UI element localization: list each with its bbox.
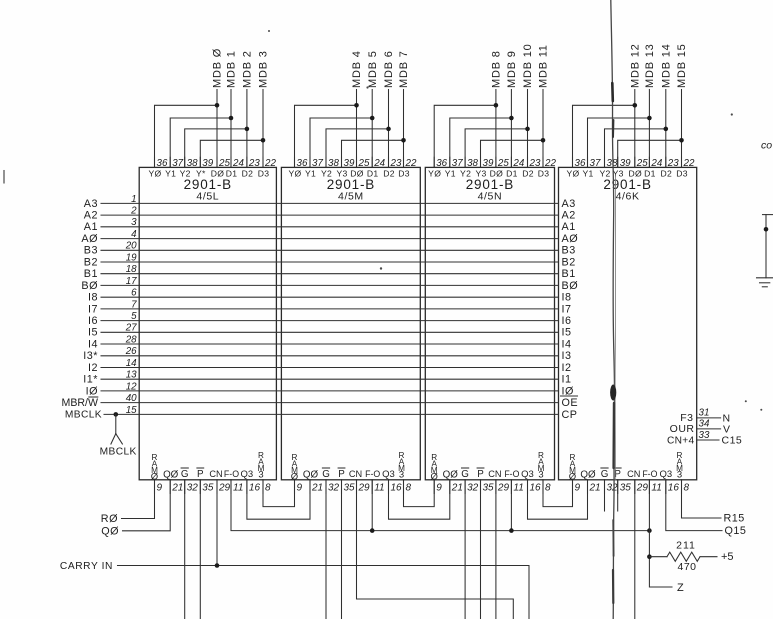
svg-text:I8: I8 bbox=[88, 292, 98, 304]
svg-text:IØ: IØ bbox=[86, 385, 98, 397]
svg-text:CN: CN bbox=[209, 469, 222, 479]
svg-text:21: 21 bbox=[171, 483, 183, 494]
wire Y1 pin to MDB13 elbow bbox=[588, 118, 650, 167]
svg-text:Y3: Y3 bbox=[336, 168, 347, 178]
svg-text:F-O: F-O bbox=[224, 469, 239, 479]
svg-text:Y3: Y3 bbox=[475, 168, 486, 178]
wire MDB7 vertical to D3 pin bbox=[403, 90, 405, 168]
svg-text:MDB 9: MDB 9 bbox=[506, 50, 518, 88]
svg-text:MBR/W: MBR/W bbox=[62, 397, 98, 409]
wire Y1 pin to MDB5 elbow bbox=[310, 118, 372, 167]
wire Y0 pin to MDB12 elbow bbox=[573, 105, 635, 167]
wire MDB12 vertical to D0 pin bbox=[634, 90, 636, 168]
IC U4 left pin label B2 bbox=[562, 256, 576, 268]
wire net AØ bus row bbox=[101, 238, 559, 240]
svg-text:21: 21 bbox=[589, 483, 601, 494]
IC U4 left pin label I8 bbox=[562, 292, 572, 304]
IC U4 left pin label B1 bbox=[562, 268, 576, 280]
svg-text:MBCLK: MBCLK bbox=[100, 447, 137, 458]
junction Y3/MDB11 bbox=[541, 138, 546, 143]
node B2 label bbox=[84, 256, 98, 268]
IC U4 left pin label CP bbox=[562, 409, 578, 421]
svg-text:3: 3 bbox=[399, 470, 404, 481]
IC U4 pin 31 F3 to node N bbox=[680, 407, 730, 424]
svg-text:B2: B2 bbox=[84, 256, 98, 268]
IC U4 left pin label AØ bbox=[562, 233, 579, 245]
svg-text:Y3: Y3 bbox=[613, 168, 624, 178]
svg-text:Y1: Y1 bbox=[582, 168, 593, 178]
net MBR/W pin number 40 bbox=[126, 393, 137, 404]
resistor reference 211 bbox=[676, 540, 696, 552]
wire Y2 pin to MDB10 elbow bbox=[465, 129, 527, 168]
svg-text:F-O: F-O bbox=[642, 469, 657, 479]
junction Y3/MDB7 bbox=[401, 138, 406, 143]
svg-text:I8: I8 bbox=[562, 292, 572, 304]
scan specks (decorative) bbox=[268, 30, 762, 411]
node MDB7 label bbox=[398, 50, 410, 88]
svg-text:38: 38 bbox=[187, 158, 198, 169]
svg-text:38: 38 bbox=[467, 158, 478, 169]
svg-text:MDB 14: MDB 14 bbox=[660, 43, 672, 88]
resistor 211 470 ohm pull-up bbox=[649, 552, 717, 561]
IC U4 left pin label I2 bbox=[562, 362, 572, 374]
wire Q3 to Q0 link bbox=[528, 480, 588, 519]
svg-text:CP: CP bbox=[562, 409, 578, 421]
svg-text:A1: A1 bbox=[84, 221, 98, 233]
svg-text:24: 24 bbox=[373, 158, 385, 169]
IC U4 left pin label A3 bbox=[562, 198, 576, 210]
wire Y3 pin to MDB3 elbow bbox=[200, 140, 263, 167]
svg-text:CN: CN bbox=[627, 469, 640, 479]
wire net I8 bus row bbox=[101, 296, 559, 298]
wire Y3 pin to MDB15 elbow bbox=[618, 140, 682, 167]
junction pull-up node bbox=[647, 554, 652, 559]
wire MDB0 vertical to D0 pin bbox=[216, 90, 218, 168]
net B2 pin number 19 bbox=[126, 252, 137, 263]
net I1* pin number 13 bbox=[126, 370, 137, 381]
junction Z at U2 F=0 bbox=[370, 528, 375, 533]
node BØ label bbox=[81, 280, 98, 292]
svg-text:32: 32 bbox=[328, 483, 340, 494]
wire U4 RAM3 pin 8 to node R15 bbox=[682, 480, 722, 518]
svg-text:Y2: Y2 bbox=[599, 168, 610, 178]
junction Y0/MDB12 bbox=[633, 103, 638, 108]
junction Y2/MDB6 bbox=[386, 127, 391, 132]
svg-text:25: 25 bbox=[358, 158, 370, 169]
svg-text:39: 39 bbox=[483, 158, 494, 169]
svg-text:29: 29 bbox=[636, 483, 649, 494]
svg-text:32: 32 bbox=[607, 483, 619, 494]
svg-text:D3: D3 bbox=[398, 168, 410, 178]
svg-text:MDB 10: MDB 10 bbox=[522, 43, 534, 88]
svg-text:CN: CN bbox=[349, 469, 362, 479]
node Q15 label bbox=[725, 525, 747, 537]
svg-text:29: 29 bbox=[358, 483, 371, 494]
svg-text:co: co bbox=[761, 140, 772, 152]
svg-text:36: 36 bbox=[297, 158, 308, 169]
svg-text:23: 23 bbox=[529, 158, 541, 169]
svg-text:21: 21 bbox=[311, 483, 323, 494]
svg-text:29: 29 bbox=[218, 483, 231, 494]
node I6 label bbox=[88, 315, 98, 327]
wire RAM3 to RAM0 link bbox=[263, 480, 295, 507]
node MDB12 label bbox=[629, 43, 641, 88]
IC U4 left pin label I3 bbox=[562, 350, 572, 362]
svg-text:Y2: Y2 bbox=[460, 168, 471, 178]
svg-text:37: 37 bbox=[312, 158, 323, 169]
node MDB10 label bbox=[522, 43, 534, 88]
wire MDB11 vertical to D3 pin bbox=[542, 90, 544, 168]
svg-text:I6: I6 bbox=[88, 315, 98, 327]
wire net A3 bus row bbox=[101, 202, 559, 204]
svg-text:DØ: DØ bbox=[211, 168, 225, 178]
wire net CARRY IN bbox=[118, 566, 530, 619]
svg-text:G: G bbox=[601, 469, 609, 480]
svg-text:Y2: Y2 bbox=[180, 168, 191, 178]
svg-text:D2: D2 bbox=[522, 168, 534, 178]
svg-text:D3: D3 bbox=[538, 168, 550, 178]
node MDB15 label bbox=[676, 43, 688, 88]
IC U2 2901-B 4/5M body bbox=[281, 167, 420, 479]
svg-text:I7: I7 bbox=[88, 303, 98, 315]
node MDB6 label bbox=[383, 50, 395, 88]
wire Y2 pin to MDB2 elbow bbox=[185, 129, 247, 168]
IC U4 2901-B 4/6K body bbox=[559, 167, 697, 479]
wire off-page stub top right bbox=[763, 215, 773, 278]
svg-text:I3: I3 bbox=[562, 350, 572, 362]
wire net MBR/W bus row bbox=[101, 402, 559, 404]
wire RAM3 to RAM0 link bbox=[543, 480, 573, 507]
svg-text:P: P bbox=[477, 469, 484, 480]
node CARRY IN label bbox=[60, 561, 113, 572]
node A3 label bbox=[84, 198, 98, 210]
svg-text:BØ: BØ bbox=[562, 280, 579, 292]
junction Y1/MDB13 bbox=[647, 116, 652, 121]
net BØ pin number 17 bbox=[126, 276, 137, 287]
node MDB13 label bbox=[644, 43, 656, 88]
svg-text:MDB 2: MDB 2 bbox=[242, 50, 254, 88]
IC U2 part label 2901-B bbox=[327, 177, 375, 203]
svg-text:I6: I6 bbox=[562, 315, 572, 327]
svg-text:16: 16 bbox=[391, 483, 403, 494]
wire Q3 to Q0 link bbox=[389, 480, 450, 519]
junction Z at U4 F=0 bbox=[647, 528, 652, 533]
junction Y0/MDB0 bbox=[215, 103, 220, 108]
node MDB11 label bbox=[538, 44, 550, 88]
svg-text:CN+4: CN+4 bbox=[667, 435, 695, 446]
svg-text:36: 36 bbox=[436, 158, 447, 169]
svg-text:V: V bbox=[723, 423, 730, 435]
svg-text:I4: I4 bbox=[88, 338, 98, 350]
wire net B3 bus row bbox=[101, 249, 559, 251]
clock source symbol MBCLK bbox=[111, 414, 123, 444]
svg-text:Y1: Y1 bbox=[165, 168, 176, 178]
IC U4 left pin label B3 bbox=[562, 245, 576, 257]
net I4 pin number 28 bbox=[125, 334, 137, 345]
svg-text:38: 38 bbox=[607, 158, 618, 169]
wire MDB10 vertical to D2 pin bbox=[527, 90, 529, 168]
svg-text:MDB 13: MDB 13 bbox=[644, 43, 656, 88]
wire Y1 pin to MDB9 elbow bbox=[450, 118, 512, 167]
svg-text:37: 37 bbox=[590, 158, 601, 169]
svg-text:YØ: YØ bbox=[148, 168, 161, 178]
wire Y0 pin to MDB0 elbow bbox=[155, 105, 218, 167]
wire MDB8 vertical to D0 pin bbox=[495, 90, 497, 168]
svg-text:MDB 12: MDB 12 bbox=[629, 43, 641, 88]
power +5 label bbox=[721, 551, 734, 563]
node MBR/W label bbox=[62, 397, 98, 409]
wire Y0 pin to MDB8 elbow bbox=[434, 105, 496, 167]
node Z label bbox=[677, 582, 684, 594]
svg-text:Q3: Q3 bbox=[241, 469, 254, 480]
svg-text:9: 9 bbox=[436, 483, 442, 494]
node R0 label and wire to U1 RAM0 pin 9 bbox=[101, 480, 155, 525]
svg-text:32: 32 bbox=[467, 483, 479, 494]
IC U3 bottom pin names RAM0 Q0 G P CN F-0 Q3 RAM3 bbox=[431, 451, 545, 482]
svg-text:24: 24 bbox=[650, 158, 662, 169]
svg-text:38: 38 bbox=[328, 158, 339, 169]
node R15 label bbox=[724, 513, 745, 525]
wire net B2 bus row bbox=[101, 261, 559, 263]
wire Y3 pin to MDB11 elbow bbox=[481, 140, 544, 167]
svg-text:MBCLK: MBCLK bbox=[65, 410, 102, 421]
svg-text:22: 22 bbox=[683, 158, 695, 169]
svg-text:A3: A3 bbox=[84, 198, 98, 210]
svg-text:CARRY IN: CARRY IN bbox=[60, 561, 113, 572]
svg-text:A2: A2 bbox=[84, 210, 98, 222]
svg-text:QØ: QØ bbox=[163, 469, 179, 480]
IC U4 top pin ticks and pin numbers 36 37 38 39 25 24 23 22 bbox=[573, 157, 695, 169]
IC U4 left pin label I5 bbox=[562, 327, 572, 339]
svg-text:16: 16 bbox=[249, 483, 261, 494]
net A3 pin number 1 bbox=[131, 194, 136, 205]
IC U4 left pin label I4 bbox=[562, 338, 572, 350]
node MDB14 label bbox=[660, 43, 672, 88]
svg-text:11: 11 bbox=[374, 483, 384, 494]
node A1 label bbox=[84, 221, 98, 233]
svg-text:9: 9 bbox=[575, 483, 581, 494]
scan fold crease (decorative) bbox=[610, 0, 616, 619]
svg-text:B1: B1 bbox=[84, 268, 98, 280]
svg-text:33: 33 bbox=[699, 430, 710, 441]
svg-text:D2: D2 bbox=[242, 168, 254, 178]
IC U3 bottom pin ticks and pin numbers 9 21 32 35 29 11 16 8 bbox=[434, 480, 551, 494]
svg-text:B3: B3 bbox=[84, 245, 98, 257]
IC U3 top pin ticks and pin numbers 36 37 38 39 25 24 23 22 bbox=[434, 157, 556, 169]
svg-text:D2: D2 bbox=[661, 168, 673, 178]
IC U4 left pin label IØ bbox=[562, 385, 574, 397]
wire RAM3 to RAM0 link bbox=[404, 480, 435, 507]
IC U4 left pin label BØ bbox=[562, 280, 579, 292]
IC U4 left pin label I6 bbox=[562, 315, 572, 327]
node MDB4 label bbox=[351, 50, 363, 88]
svg-text:OUR: OUR bbox=[670, 423, 695, 435]
svg-text:16: 16 bbox=[668, 483, 680, 494]
node MBCLK symbol label bbox=[100, 447, 137, 458]
svg-text:Q3: Q3 bbox=[659, 469, 672, 480]
svg-text:MDB 11: MDB 11 bbox=[538, 44, 550, 88]
svg-text:Q15: Q15 bbox=[725, 525, 747, 537]
node I2 label bbox=[88, 362, 98, 374]
svg-text:R15: R15 bbox=[724, 513, 745, 525]
wire U4 Q3 pin 16 to node Q15 bbox=[666, 480, 722, 531]
wire U2 CN pin 29 routed off-page bbox=[357, 480, 514, 619]
node MDB9 label bbox=[506, 50, 518, 88]
wire U1 G pin 32 off-page bbox=[184, 480, 186, 619]
svg-text:MDB 4: MDB 4 bbox=[351, 50, 363, 88]
svg-text:CN: CN bbox=[488, 469, 501, 479]
junction Y2/MDB2 bbox=[245, 127, 250, 132]
IC U3 top pin names Y0-Y3 D0-D3 bbox=[428, 168, 549, 178]
svg-text:I5: I5 bbox=[88, 327, 98, 339]
svg-text:22: 22 bbox=[264, 158, 276, 169]
svg-text:D2: D2 bbox=[383, 168, 395, 178]
wire MDB6 vertical to D2 pin bbox=[388, 90, 390, 168]
IC U2 top pin ticks and pin numbers 36 37 38 39 25 24 23 22 bbox=[295, 157, 417, 169]
svg-text:4/5M: 4/5M bbox=[338, 191, 364, 203]
svg-text:F-O: F-O bbox=[365, 469, 380, 479]
wire net I7 bus row bbox=[101, 308, 559, 310]
node MDB0 label bbox=[212, 48, 224, 88]
svg-text:YØ: YØ bbox=[428, 168, 441, 178]
svg-text:I5: I5 bbox=[562, 327, 572, 339]
IC U4 bottom pin names RAM0 Q0 G P CN F-0 Q3 RAM3 bbox=[569, 451, 683, 482]
wire MDB4 vertical to D0 pin bbox=[356, 90, 358, 168]
svg-text:8: 8 bbox=[265, 483, 271, 494]
svg-text:11: 11 bbox=[513, 483, 523, 494]
svg-text:B3: B3 bbox=[562, 245, 576, 257]
wire net I6 bus row bbox=[101, 320, 559, 322]
IC U4 top pin names Y0-Y3 D0-D3 bbox=[566, 168, 687, 178]
svg-text:35: 35 bbox=[483, 483, 495, 494]
svg-text:G: G bbox=[461, 469, 469, 480]
node Q0 label and wire to U1 Q0 pin 21 bbox=[101, 480, 170, 538]
svg-text:11: 11 bbox=[651, 483, 661, 494]
svg-text:8: 8 bbox=[545, 483, 551, 494]
node I8 label bbox=[88, 292, 98, 304]
svg-text:22: 22 bbox=[544, 158, 556, 169]
wire MDB14 vertical to D2 pin bbox=[665, 90, 667, 168]
wire net I4 bus row bbox=[101, 343, 559, 345]
svg-text:3: 3 bbox=[258, 470, 263, 481]
wire U3 P pin 35 off-page bbox=[480, 480, 482, 619]
svg-text:35: 35 bbox=[620, 483, 632, 494]
wire U2 P pin 35 off-page bbox=[341, 480, 343, 619]
net A1 pin number 3 bbox=[131, 217, 137, 228]
net I7 pin number 7 bbox=[131, 299, 137, 310]
svg-text:3: 3 bbox=[677, 470, 682, 481]
svg-text:470: 470 bbox=[677, 561, 696, 573]
svg-text:9: 9 bbox=[157, 483, 163, 494]
svg-text:DØ: DØ bbox=[350, 168, 364, 178]
node MDB2 label bbox=[242, 50, 254, 88]
svg-text:BØ: BØ bbox=[81, 280, 98, 292]
svg-text:4/6K: 4/6K bbox=[616, 191, 640, 203]
wire MDB15 vertical to D3 pin bbox=[681, 90, 683, 168]
svg-text:Y1: Y1 bbox=[305, 168, 316, 178]
node MDB5 label bbox=[367, 50, 379, 88]
svg-text:4/5L: 4/5L bbox=[196, 191, 219, 203]
IC U1 2901-B 4/5L body bbox=[139, 167, 276, 479]
svg-text:34: 34 bbox=[699, 419, 710, 430]
wire U3 CN pin 29 off-page bbox=[495, 480, 497, 619]
svg-text:G: G bbox=[322, 469, 330, 480]
svg-text:29: 29 bbox=[497, 483, 510, 494]
svg-text:C15: C15 bbox=[722, 435, 743, 447]
junction Y3/MDB15 bbox=[679, 138, 684, 143]
wire U1 P pin 35 off-page bbox=[199, 480, 201, 619]
svg-text:Y*: Y* bbox=[196, 168, 206, 178]
resistor value 470 bbox=[677, 561, 696, 573]
net IØ pin number 12 bbox=[126, 381, 137, 392]
svg-text:QØ: QØ bbox=[443, 469, 459, 480]
wire net I3* bus row bbox=[101, 355, 559, 357]
svg-text:24: 24 bbox=[232, 158, 244, 169]
junction MBCLK tap bbox=[114, 412, 119, 417]
svg-text:A1: A1 bbox=[562, 221, 576, 233]
net I8 pin number 6 bbox=[131, 288, 137, 299]
node AØ label bbox=[81, 233, 98, 245]
svg-text:25: 25 bbox=[636, 158, 648, 169]
svg-text:23: 23 bbox=[667, 158, 679, 169]
svg-text:B1: B1 bbox=[562, 268, 576, 280]
wire U3 G pin 32 off-page bbox=[464, 480, 466, 619]
svg-text:MDB 1: MDB 1 bbox=[226, 50, 238, 88]
svg-text:F-O: F-O bbox=[504, 469, 519, 479]
node I4 label bbox=[88, 338, 98, 350]
IC U4 pin 34 OVR to node V bbox=[670, 419, 730, 436]
junction Z at U3 F=0 bbox=[509, 528, 514, 533]
net I6 pin number 5 bbox=[131, 311, 137, 322]
node I7 label bbox=[88, 303, 98, 315]
net B1 pin number 18 bbox=[126, 264, 137, 275]
svg-text:11: 11 bbox=[233, 483, 243, 494]
svg-text:A2: A2 bbox=[562, 210, 576, 222]
svg-text:D1: D1 bbox=[367, 168, 379, 178]
wire Y0 pin to MDB4 elbow bbox=[295, 105, 357, 167]
wire net I5 bus row bbox=[101, 331, 559, 333]
wire net I2 bus row bbox=[101, 367, 559, 369]
svg-text:AØ: AØ bbox=[562, 233, 579, 245]
wire net B1 bus row bbox=[101, 273, 559, 275]
wire Y1 pin to MDB1 elbow bbox=[170, 118, 231, 167]
IC U3 part label 2901-B bbox=[466, 177, 514, 203]
wire net I1* bus row bbox=[101, 378, 559, 380]
IC U1 bottom pin ticks and pin numbers 9 21 32 35 29 11 16 8 bbox=[155, 480, 272, 494]
ground bbox=[757, 278, 773, 287]
svg-text:B2: B2 bbox=[562, 256, 576, 268]
wire MDB2 vertical to D2 pin bbox=[246, 90, 248, 168]
svg-text:211: 211 bbox=[676, 540, 696, 552]
junction Y0/MDB8 bbox=[494, 103, 499, 108]
wire net IØ bus row bbox=[101, 390, 559, 392]
wire Y2 pin to MDB6 elbow bbox=[326, 129, 389, 168]
svg-text:37: 37 bbox=[172, 158, 183, 169]
svg-text:23: 23 bbox=[248, 158, 260, 169]
node MDB1 label bbox=[226, 50, 238, 88]
svg-text:I2: I2 bbox=[562, 362, 572, 374]
wire U4 F=0 down to resistor node and Z label bbox=[649, 480, 672, 587]
wire U4 P pin 35 stub bbox=[617, 480, 619, 511]
svg-text:39: 39 bbox=[202, 158, 213, 169]
net AØ pin number 4 bbox=[131, 229, 137, 240]
svg-text:39: 39 bbox=[620, 158, 631, 169]
svg-text:Y2: Y2 bbox=[321, 168, 332, 178]
svg-text:D1: D1 bbox=[506, 168, 518, 178]
svg-text:21: 21 bbox=[451, 483, 463, 494]
svg-text:I7: I7 bbox=[562, 303, 572, 315]
wire MDB1 vertical to D1 pin bbox=[230, 90, 232, 168]
